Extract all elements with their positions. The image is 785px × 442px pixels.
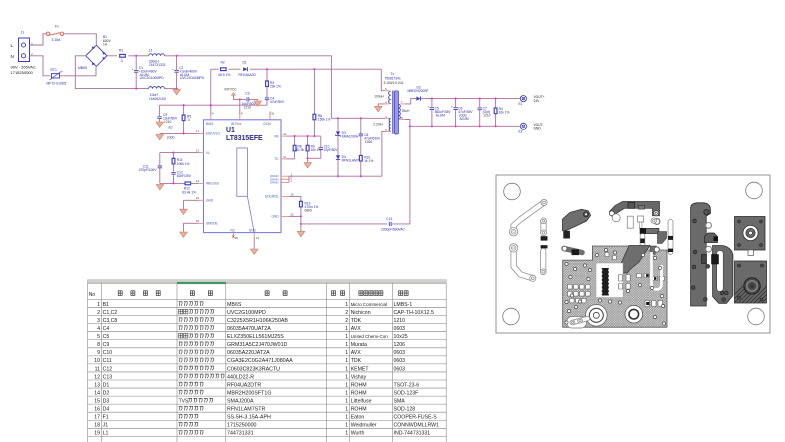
node D4 bottom (337, 175, 339, 177)
svg-text:14: 14 (94, 390, 100, 396)
svg-text:J1: J1 (103, 423, 109, 429)
svg-text:Weidmuller: Weidmuller (351, 423, 377, 429)
resistor R6 body (313, 114, 316, 120)
svg-text:1: 1 (345, 302, 348, 308)
svg-text:TDK: TDK (351, 318, 362, 324)
svg-text:9: 9 (97, 350, 100, 356)
svg-text:19: 19 (291, 193, 294, 197)
svg-text:C10: C10 (103, 350, 113, 356)
svg-text:8: 8 (97, 342, 100, 348)
svg-text:L: L (11, 43, 14, 48)
svg-text:47uF/50V: 47uF/50V (270, 100, 285, 104)
svg-text:49.9 1%: 49.9 1% (218, 73, 230, 77)
wire C1 top (135, 56, 137, 71)
svg-text:16: 16 (94, 407, 100, 413)
svg-text:+: + (172, 67, 174, 71)
svg-text:3: 3 (291, 179, 293, 183)
PCB pad (540, 269, 546, 275)
wire C4 to BIAS rail (266, 100, 268, 106)
wire R6 top (313, 69, 315, 114)
terminal E2 VOUT- (520, 123, 526, 129)
wire C11 top (159, 153, 161, 166)
svg-text:MBR2H200SF: MBR2H200SF (408, 89, 429, 93)
svg-text:UVC2G100MPD: UVC2G100MPD (140, 76, 165, 80)
svg-text:1206: 1206 (394, 342, 406, 348)
svg-text:1: 1 (345, 342, 348, 348)
svg-text:COOPER-FUSE-S: COOPER-FUSE-S (394, 415, 438, 421)
thermistor RT1 (50, 72, 63, 80)
svg-text:ALUM: ALUM (436, 114, 445, 118)
svg-text:1: 1 (345, 398, 348, 404)
wire C8 to R10 (360, 136, 362, 156)
trace lower-left elbow (514, 252, 533, 279)
node C8 top (360, 117, 362, 119)
PCB pads on J polygon (704, 210, 709, 215)
capacitor C6 plates (451, 104, 458, 109)
svg-text:INTVcc: INTVcc (231, 122, 242, 126)
inductor L1 bumps (149, 54, 165, 56)
svg-text:C13: C13 (386, 217, 392, 221)
svg-text:RT1: RT1 (51, 68, 57, 72)
svg-text:1715250000: 1715250000 (11, 70, 34, 75)
wire R3 top (266, 69, 268, 81)
svg-text:MBR2H200SFT1G: MBR2H200SFT1G (227, 390, 271, 396)
PCB pad grid (568, 285, 591, 303)
svg-text:17: 17 (94, 415, 100, 421)
wire SOURCE to R13 (289, 197, 301, 202)
PCB outline trace (573, 319, 588, 323)
wire C10 bottom (320, 150, 322, 159)
ground U1 pad (251, 249, 259, 254)
trace below cluster (640, 236, 646, 252)
svg-text:CGA3E2C0G2A471J080AA: CGA3E2C0G2A471J080AA (227, 358, 293, 364)
op-amp U1 LT8315EFE box (204, 120, 282, 233)
resistor R12 body (185, 182, 191, 185)
wire TC (286, 158, 295, 160)
capacitor C3 plates (247, 97, 249, 101)
PCB IC footprint (601, 268, 609, 296)
svg-text:No: No (89, 292, 96, 298)
wire GND20 (289, 215, 301, 217)
wire R11 to C12 (173, 164, 175, 172)
PCB pad pairs right (605, 253, 665, 307)
svg-text:0: 0 (188, 118, 190, 122)
svg-text:E2: E2 (519, 130, 523, 134)
svg-text:+: + (427, 104, 429, 108)
BOM table (88, 280, 447, 283)
PCB pad (570, 320, 575, 325)
wire R9 bottom (307, 151, 309, 158)
wire R9-C10 bottoms (308, 157, 321, 159)
svg-text:C12: C12 (103, 366, 113, 372)
wire to gnd arrow (300, 224, 302, 231)
PCB transformer hole B (625, 305, 643, 323)
node C1 top (135, 55, 137, 57)
PCB white lobe bottom-left (567, 317, 587, 329)
PCB mounting hole (504, 183, 521, 200)
svg-text:L1: L1 (149, 48, 153, 52)
svg-text:Tx: Tx (391, 72, 395, 76)
capacitor C1 plates (132, 67, 139, 72)
svg-text:1: 1 (345, 334, 348, 340)
svg-text:744731331: 744731331 (227, 431, 254, 437)
svg-text:J1: J1 (21, 31, 25, 35)
PCB pad (651, 246, 656, 251)
svg-text:13: 13 (94, 382, 100, 388)
svg-text:U1: U1 (226, 127, 235, 134)
wire R10 bottom (360, 161, 362, 176)
svg-text:19: 19 (94, 431, 100, 437)
svg-text:25uH: 25uH (402, 109, 410, 113)
svg-text:1A: 1A (103, 42, 108, 46)
svg-text:TSOT-23-6: TSOT-23-6 (394, 382, 420, 388)
U1 pin stubs (210, 115, 212, 120)
svg-text:21: 21 (256, 236, 259, 240)
wire SMODE down (182, 223, 184, 232)
wire R1 to L1 (128, 55, 148, 57)
svg-text:10: 10 (94, 358, 100, 364)
wire R8 top (294, 136, 296, 145)
svg-text:+: + (132, 67, 134, 71)
svg-text:GND: GND (249, 228, 257, 232)
svg-text:L1: L1 (103, 431, 109, 437)
svg-text:470pF/100V: 470pF/100V (139, 168, 158, 172)
svg-text:N: N (11, 54, 14, 59)
diode D1 body (243, 67, 247, 71)
trace vertical 2 (540, 251, 546, 272)
capacitor C7 plates (478, 108, 482, 110)
svg-text:4: 4 (97, 326, 100, 332)
wire BIAS rail (160, 104, 267, 106)
svg-text:C5: C5 (103, 334, 110, 340)
trace vertical 1 (540, 222, 546, 233)
svg-text:22pF/50V: 22pF/50V (324, 148, 339, 152)
svg-text:24V: 24V (534, 99, 541, 103)
svg-text:15: 15 (196, 196, 199, 200)
node out bottom (431, 125, 433, 127)
PCB transformer hole A (586, 305, 608, 327)
svg-text:15: 15 (94, 398, 100, 404)
wire GND pin20 (281, 215, 289, 217)
svg-text:C3,C8: C3,C8 (103, 318, 118, 324)
wire U1 GND pad down (253, 237, 255, 249)
node IREG (172, 182, 174, 184)
node VL divider (172, 152, 174, 154)
svg-text:C4: C4 (103, 326, 110, 332)
wire GND15 down (182, 200, 184, 209)
node source gnd (300, 215, 302, 217)
PCB copper flag top-left (563, 209, 591, 230)
svg-text:INTVCC: INTVCC (225, 88, 238, 92)
svg-text:1206: 1206 (365, 140, 372, 144)
wire L2 to C2 (165, 88, 177, 90)
svg-text:10: 10 (271, 111, 274, 115)
PCB hatched ground module (563, 246, 667, 327)
wire VOUT+ rail (421, 98, 520, 100)
svg-text:0603: 0603 (394, 366, 406, 372)
svg-text:13: 13 (196, 148, 199, 152)
svg-text:20: 20 (291, 212, 294, 216)
svg-text:1: 1 (97, 302, 100, 308)
fuse F1 (46, 32, 63, 35)
svg-text:F1: F1 (103, 415, 109, 421)
bridge rectifier B1 MB6S (86, 45, 107, 66)
wire R2 to D1 (229, 68, 241, 70)
svg-text:UVC2G100MPD: UVC2G100MPD (227, 310, 266, 316)
ground IREG line (156, 185, 164, 190)
svg-text:C1,C2: C1,C2 (103, 310, 118, 316)
header 品名 (190, 291, 212, 296)
svg-text:TVS: TVS (179, 398, 189, 404)
svg-text:2200pF/500VAC: 2200pF/500VAC (381, 228, 406, 232)
svg-text:United Chemi-Con: United Chemi-Con (351, 334, 389, 339)
capacitor C5 (431, 99, 433, 107)
node INTVcc pin (239, 98, 241, 100)
wire J1 pin1 to F1 (30, 34, 47, 45)
wire C12 bottom (173, 174, 175, 183)
svg-text:1: 1 (345, 415, 348, 421)
svg-text:R2: R2 (221, 61, 225, 65)
resistor R8 body (293, 145, 296, 151)
capacitor C9 plates (157, 117, 161, 119)
svg-text:10x25: 10x25 (394, 334, 408, 340)
svg-text:2: 2 (345, 318, 348, 324)
wire D3 to D4 (337, 136, 339, 156)
node R5 top (183, 104, 185, 106)
wire GND15 (183, 199, 198, 201)
svg-text:Wurth: Wurth (351, 431, 365, 437)
svg-text:0603: 0603 (394, 326, 406, 332)
wire to INTVcc pin (239, 99, 241, 115)
svg-text:R7: R7 (169, 126, 173, 130)
node R8 (294, 135, 296, 137)
U1 exposed pad (237, 148, 248, 196)
svg-text:14: 14 (196, 179, 199, 183)
wire EN/UVLO (160, 132, 199, 134)
svg-text:1: 1 (345, 326, 348, 332)
svg-text:12: 12 (94, 374, 100, 380)
wire R11 top (173, 153, 175, 159)
PCB layout image (496, 175, 784, 333)
svg-text:C9: C9 (103, 342, 110, 348)
node R9 bottom (307, 157, 309, 159)
svg-text:ELXZ350ELL561MJ25S: ELXZ350ELL561MJ25S (227, 334, 284, 340)
svg-text:MF72-010D5: MF72-010D5 (47, 81, 67, 85)
trace upper-left elbow (514, 203, 544, 229)
node C13 left (300, 223, 302, 225)
wire C2 bottom (176, 72, 178, 88)
wire R5 to EN (183, 121, 185, 134)
svg-text:0805: 0805 (305, 209, 312, 213)
node return rail end (176, 88, 178, 90)
wire to gnd (307, 158, 309, 162)
wire to C13 (301, 223, 387, 225)
capacitor C10 plates (319, 148, 323, 150)
svg-text:DRAIN: DRAIN (270, 180, 278, 184)
diode D2 body (416, 97, 420, 101)
svg-text:IREG/SS: IREG/SS (206, 182, 219, 186)
capacitor C8 plates (359, 134, 363, 136)
node clamp top (337, 117, 339, 119)
wire C9 top (159, 105, 161, 116)
svg-text:SMAJ200A: SMAJ200A (342, 135, 359, 139)
svg-text:SOD-128: SOD-128 (394, 407, 416, 413)
resistor R5 body (182, 115, 185, 121)
svg-text:100uH: 100uH (374, 94, 384, 98)
PCB pad square upper-right (735, 217, 766, 251)
svg-text:1: 1 (345, 358, 348, 364)
svg-text:9: 9 (212, 111, 214, 115)
PCB slot in J polygon (717, 251, 724, 292)
wire SMODE pin16 (199, 222, 204, 224)
node EN (183, 132, 185, 134)
wire C2 top (176, 56, 178, 71)
wire R9 top (307, 136, 309, 145)
wire drain tie (288, 176, 290, 182)
svg-text:EN/UVLO: EN/UVLO (206, 132, 220, 136)
svg-text:D4: D4 (103, 407, 110, 413)
ground C3 (254, 101, 262, 106)
capacitor C6 (455, 99, 457, 107)
wire C9 bottom (159, 119, 161, 122)
wire D4 bottom (337, 160, 339, 177)
svg-text:AVX: AVX (351, 326, 362, 332)
svg-text:MB6S: MB6S (227, 302, 242, 308)
wire C8 top (360, 118, 362, 133)
node sec gnd (409, 125, 411, 127)
wire IREG left (160, 182, 185, 184)
resistor R2 body (221, 68, 227, 71)
wire R8 bottom (294, 151, 296, 159)
svg-text:SMA: SMA (394, 398, 406, 404)
ground bias winding (375, 106, 383, 111)
svg-text:1210: 1210 (164, 120, 171, 124)
wire VL (160, 152, 199, 154)
svg-text:F1: F1 (55, 25, 59, 29)
wire down (300, 216, 302, 224)
svg-text:150k 1%: 150k 1% (318, 118, 331, 122)
node out top (455, 98, 457, 100)
wire secondary top (406, 99, 417, 104)
resistor R13 body (300, 201, 303, 207)
PCB pad (651, 218, 656, 223)
wire C11 bottom (159, 168, 161, 184)
wire C1 bottom (135, 72, 137, 88)
wire C10 top (320, 136, 322, 147)
svg-text:20k 1%: 20k 1% (270, 85, 281, 89)
PCB mounting hole (503, 308, 520, 325)
wire INTVCC to C3 (234, 95, 247, 99)
svg-text:GND: GND (206, 199, 214, 203)
wire down to pin5 (381, 69, 385, 91)
svg-text:RF04UA2D: RF04UA2D (239, 73, 257, 77)
svg-text:SMAJ200A: SMAJ200A (227, 398, 254, 404)
wire R5 top (183, 105, 185, 115)
svg-text:Eaton: Eaton (351, 415, 365, 421)
svg-text:11: 11 (95, 366, 100, 372)
resistor R4 (495, 99, 497, 108)
PCB right branch of J polygon (713, 246, 733, 304)
svg-text:BIAS: BIAS (206, 122, 213, 126)
wire FB (286, 135, 321, 137)
svg-text:TC: TC (274, 157, 279, 161)
node out top (431, 98, 433, 100)
svg-text:AVX: AVX (351, 350, 362, 356)
ground primary (297, 231, 305, 236)
diode D4 body (336, 155, 340, 159)
svg-text:GND: GND (534, 127, 542, 131)
resistor R11 body (172, 158, 175, 164)
svg-text:MB6S: MB6S (78, 66, 88, 70)
svg-text:FB: FB (274, 134, 278, 138)
resistor R9 body (306, 145, 309, 151)
ground FB divider (304, 163, 312, 168)
wire DRAIN pins (281, 175, 289, 177)
svg-text:10k 1%: 10k 1% (499, 111, 510, 115)
svg-text:VL: VL (206, 151, 210, 155)
svg-text:D3: D3 (103, 398, 110, 404)
svg-text:B1: B1 (103, 302, 109, 308)
node out bottom (479, 125, 481, 127)
wire DRAIN line (289, 175, 382, 177)
resistor R1 body (120, 54, 126, 57)
wire R3 to C4 (266, 87, 268, 98)
svg-text:1: 1 (345, 431, 348, 437)
node R3 top (266, 68, 268, 70)
capacitor C5 plates (427, 104, 434, 109)
svg-text:1: 1 (345, 374, 348, 380)
svg-text:744062100: 744062100 (149, 97, 166, 101)
svg-text:DCM: DCM (264, 122, 272, 126)
svg-text:82nF/25V: 82nF/25V (177, 174, 192, 178)
capacitor C4 plates (265, 98, 269, 100)
capacitor C7 (479, 99, 481, 108)
svg-text:KEMET: KEMET (351, 366, 370, 372)
svg-text:C3: C3 (245, 91, 249, 95)
resistor R10 body (359, 155, 362, 161)
svg-text:0603: 0603 (394, 350, 406, 356)
PCB copper J polygon (691, 203, 711, 306)
svg-text:100k 1%: 100k 1% (177, 162, 190, 166)
svg-text:Vishay: Vishay (351, 374, 367, 380)
PCB pad square lower-right (735, 261, 767, 303)
transformer T1 750817341 (389, 91, 401, 135)
svg-text:1k 1%: 1k 1% (364, 159, 373, 163)
PCB dark swoosh on module (616, 246, 651, 274)
DCM pin wire (269, 112, 271, 115)
wire J1 pin2 to RT1 (30, 56, 51, 76)
svg-text:1: 1 (345, 390, 348, 396)
PCB white meander slot (652, 252, 662, 290)
trace mid-right vertical (668, 222, 674, 252)
svg-text:UVC2G100MPD: UVC2G100MPD (180, 76, 205, 80)
svg-text:1: 1 (345, 423, 348, 429)
capacitor C12 plates (171, 172, 175, 174)
wire DRAIN to pin3 (382, 131, 385, 176)
svg-text:1210: 1210 (394, 318, 406, 324)
svg-text:1: 1 (345, 350, 348, 356)
node R9 (307, 135, 309, 137)
resistor R4 body (494, 108, 497, 114)
wire C13 to secondary gnd (391, 126, 410, 224)
PCB board outline (496, 175, 770, 333)
svg-text:63.4k 1%: 63.4k 1% (182, 190, 196, 194)
PCB pad (541, 199, 547, 205)
svg-text:D2: D2 (103, 390, 110, 396)
svg-text:8: 8 (241, 111, 243, 115)
PCB small elbow (564, 249, 582, 253)
svg-text:5: 5 (97, 334, 100, 340)
